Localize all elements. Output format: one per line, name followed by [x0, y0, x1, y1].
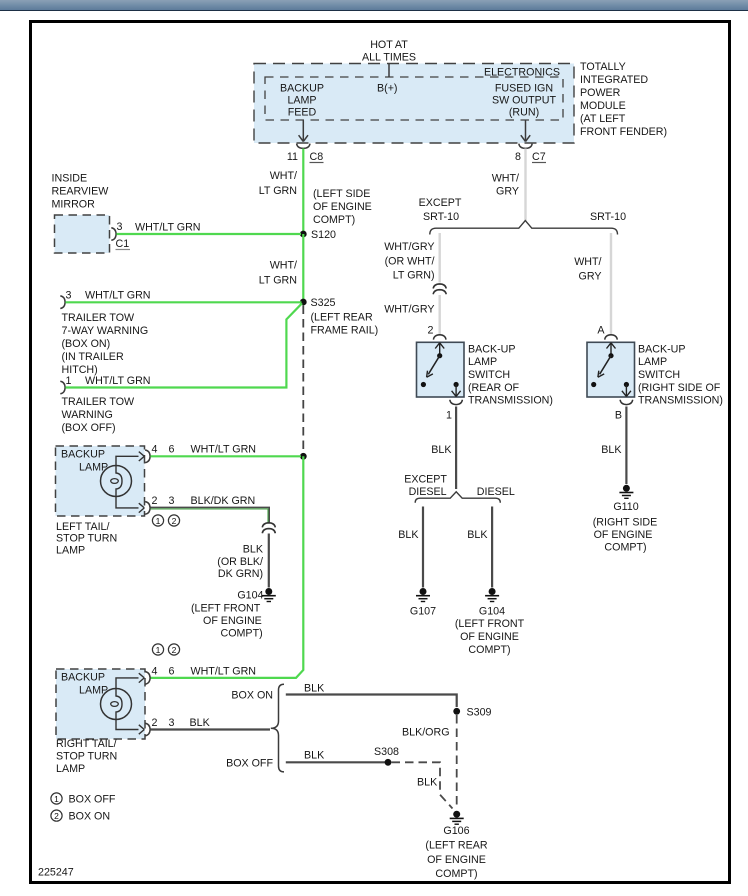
svg-text:LAMP: LAMP	[56, 763, 85, 775]
svg-text:BLK: BLK	[304, 683, 325, 695]
svg-text:RIGHT TAIL/: RIGHT TAIL/	[56, 738, 117, 750]
pin 1 label left switch	[446, 410, 452, 422]
node S325	[300, 297, 378, 337]
svg-text:3: 3	[169, 717, 175, 729]
svg-text:FRAME RAIL): FRAME RAIL)	[311, 325, 379, 337]
svg-text:LAMP: LAMP	[56, 545, 85, 557]
pin A label right switch	[597, 325, 605, 337]
connector C8 label	[310, 151, 324, 163]
label RIGHT TAIL/ STOP TURN LAMP	[56, 738, 117, 775]
svg-text:OF ENGINE: OF ENGINE	[313, 201, 372, 213]
label SRT-10	[590, 211, 626, 223]
wire BLK left switch to diesel brace	[455, 407, 457, 490]
svg-text:11: 11	[287, 151, 298, 163]
svg-text:(LEFT REAR: (LEFT REAR	[425, 840, 487, 852]
label LEFT TAIL/ STOP TURN LAMP	[56, 521, 117, 557]
svg-text:OF ENGINE: OF ENGINE	[427, 854, 486, 866]
connector C7 label	[532, 151, 546, 163]
wire BLK box-off branch to S308	[286, 750, 386, 763]
label BOX OFF	[226, 758, 273, 770]
wire WHT/GRY left branch upper	[439, 233, 441, 283]
svg-text:WHT/: WHT/	[492, 173, 519, 185]
svg-text:A: A	[597, 325, 605, 337]
svg-text:WARNING: WARNING	[62, 409, 113, 421]
svg-text:BLK: BLK	[417, 777, 438, 789]
switch S2 internals	[591, 343, 631, 397]
wire WHT/LT GRN mirror to S120	[117, 222, 302, 235]
svg-text:2: 2	[54, 811, 59, 821]
label ELECTRONICS	[484, 67, 560, 79]
node S309	[453, 707, 491, 719]
svg-text:BLK/DK GRN: BLK/DK GRN	[191, 495, 256, 507]
svg-text:G104: G104	[479, 606, 505, 618]
svg-text:MIRROR: MIRROR	[52, 199, 96, 211]
component mirror: INSIDE REARVIEW MIRROR	[52, 173, 110, 254]
svg-text:INSIDE: INSIDE	[52, 173, 88, 185]
lamp E2 right backup lamp box	[56, 669, 145, 739]
svg-text:FEED: FEED	[288, 107, 317, 119]
connector arc left lamp pin 4/6	[145, 450, 150, 463]
svg-text:G106: G106	[443, 825, 469, 837]
svg-text:(LEFT FRONT: (LEFT FRONT	[191, 603, 261, 615]
wire WHT/LT GRN from C8 to S120	[302, 149, 304, 235]
svg-text:SRT-10: SRT-10	[590, 211, 626, 223]
svg-text:BACKUP: BACKUP	[61, 672, 105, 684]
switch S2 back-up lamp switch box	[587, 342, 635, 397]
svg-text:3: 3	[169, 495, 175, 507]
svg-text:ALL TIMES: ALL TIMES	[362, 52, 416, 64]
brace SRT-10 options split	[430, 221, 618, 235]
svg-text:(IN TRAILER: (IN TRAILER	[62, 351, 124, 363]
svg-text:LAMP: LAMP	[468, 356, 497, 368]
svg-text:HOT AT: HOT AT	[370, 39, 408, 51]
svg-text:G107: G107	[410, 606, 436, 618]
svg-text:4: 4	[152, 444, 158, 456]
svg-text:WHT/: WHT/	[270, 170, 297, 182]
svg-text:TRANSMISSION): TRANSMISSION)	[468, 395, 553, 407]
svg-text:(LEFT FRONT: (LEFT FRONT	[455, 618, 525, 630]
svg-text:BLK: BLK	[601, 444, 622, 456]
ground G104 right	[479, 588, 505, 618]
svg-text:C7: C7	[532, 151, 546, 163]
label BLK right switch	[601, 444, 622, 456]
svg-text:(RUN): (RUN)	[509, 107, 539, 119]
connector arc left switch exit	[450, 400, 463, 405]
wire BLK diesel branch to G104	[467, 507, 492, 588]
svg-text:BLK/ORG: BLK/ORG	[402, 727, 450, 739]
pin 2 label left switch	[428, 325, 434, 337]
svg-text:LT GRN: LT GRN	[259, 275, 297, 287]
svg-text:BLK: BLK	[467, 529, 488, 541]
inline connector on BLK wire (double arc)	[262, 523, 275, 533]
wire TIPM internal to pin 11 with arrow	[299, 121, 308, 142]
svg-text:2: 2	[428, 325, 434, 337]
svg-text:2: 2	[172, 645, 177, 655]
connector arc right switch entry	[605, 335, 618, 340]
label BACK-UP LAMP SWITCH (REAR OF TRANSMISSION)	[468, 344, 553, 407]
svg-text:6: 6	[169, 444, 175, 456]
wire WHT/LT GRN trailer warning to S325	[66, 303, 303, 387]
brace diesel options split	[415, 492, 500, 503]
label HOT AT ALL TIMES	[362, 39, 416, 64]
svg-text:B: B	[615, 410, 622, 422]
svg-text:2: 2	[152, 717, 158, 729]
svg-text:BLK: BLK	[243, 544, 264, 556]
svg-text:SWITCH: SWITCH	[468, 369, 510, 381]
svg-text:2: 2	[152, 495, 158, 507]
connector arc trailer tow 7-way pin 3	[60, 290, 71, 309]
svg-text:1: 1	[66, 375, 72, 387]
svg-text:S120: S120	[311, 229, 336, 241]
label BLK left switch	[431, 444, 452, 456]
connector arc left lamp pin 2/3	[145, 502, 150, 515]
circled 1 and 2 footnote markers right lamp	[152, 644, 179, 655]
svg-text:(LEFT REAR: (LEFT REAR	[311, 312, 373, 324]
label (LEFT SIDE OF ENGINE COMPT)	[313, 188, 372, 226]
svg-text:1: 1	[156, 516, 161, 526]
connector C1 label	[116, 238, 131, 250]
svg-text:2: 2	[172, 516, 177, 526]
svg-text:C8: C8	[310, 151, 324, 163]
svg-text:BLK: BLK	[190, 717, 211, 729]
ground G110	[619, 485, 633, 499]
label WHT/GRY (OR WHT/ LT GRN)	[384, 241, 434, 282]
label (LEFT FRONT OF ENGINE COMPT)	[191, 603, 263, 640]
lamp E1 left backup lamp box	[56, 446, 145, 516]
wire BLK to ground G104	[268, 534, 270, 588]
label TRAILER TOW WARNING (BOX OFF)	[62, 396, 136, 434]
svg-text:BOX OFF: BOX OFF	[226, 758, 273, 770]
label BACKUP LAMP FEED	[280, 83, 324, 119]
svg-text:1: 1	[446, 410, 452, 422]
svg-text:BLK: BLK	[398, 529, 419, 541]
label G106 (LEFT REAR OF ENGINE COMPT)	[425, 825, 487, 880]
svg-text:225247: 225247	[38, 867, 74, 879]
svg-text:C1: C1	[116, 238, 130, 250]
svg-text:DIESEL: DIESEL	[409, 486, 447, 498]
svg-text:LAMP: LAMP	[287, 95, 316, 107]
svg-text:BOX ON: BOX ON	[231, 690, 273, 702]
svg-text:WHT/LT GRN: WHT/LT GRN	[85, 375, 151, 387]
svg-text:(AT LEFT: (AT LEFT	[580, 113, 626, 125]
svg-text:STOP TURN: STOP TURN	[56, 533, 117, 545]
wire WHT/GRY C7 to brace	[524, 149, 526, 222]
wire WHT/LT GRN left lamp to junction	[151, 444, 302, 457]
svg-text:POWER: POWER	[580, 87, 621, 99]
svg-text:(OR BLK/: (OR BLK/	[217, 556, 263, 568]
wire B(+) feed stub	[388, 64, 390, 77]
svg-text:(BOX ON): (BOX ON)	[62, 338, 111, 350]
lamp E1 pin 2/3 lead with arrow	[116, 497, 144, 513]
wire WHT/LT GRN trunk down to right lamp	[150, 456, 303, 678]
module U1 TIPM inner dashed box	[265, 77, 563, 120]
svg-text:BACKUP: BACKUP	[61, 449, 105, 461]
wire WHT/LT GRN S120 to S325	[302, 234, 304, 302]
svg-text:WHT/: WHT/	[574, 256, 601, 268]
pin B label right switch	[615, 410, 622, 422]
lamp E2 bulb symbol	[101, 689, 132, 720]
svg-text:REARVIEW: REARVIEW	[52, 186, 110, 198]
svg-text:OF ENGINE: OF ENGINE	[203, 615, 262, 627]
wire BLK except-diesel branch to G107	[398, 507, 423, 588]
svg-text:(BOX OFF): (BOX OFF)	[62, 422, 116, 434]
switch S1 internals	[421, 343, 461, 397]
label FUSED IGN SW OUTPUT (RUN)	[492, 83, 557, 119]
label B(+)	[377, 83, 398, 95]
connector C7 arc	[519, 144, 532, 149]
svg-text:BACK-UP: BACK-UP	[468, 344, 516, 356]
svg-text:1: 1	[156, 645, 161, 655]
svg-text:(RIGHT SIDE: (RIGHT SIDE	[593, 517, 658, 529]
svg-text:3: 3	[66, 290, 72, 302]
wire BLK/DK GRN left lamp to G104	[151, 495, 270, 523]
svg-text:WHT/: WHT/	[270, 260, 297, 272]
label WHT/LT GRN vertical feed	[259, 170, 297, 197]
svg-text:(REAR OF: (REAR OF	[468, 382, 520, 394]
node S308	[374, 746, 399, 766]
connector arc right switch exit	[620, 400, 633, 405]
switch S1 back-up lamp switch box	[417, 342, 465, 397]
wire BLK right lamp to options brace	[151, 728, 271, 730]
svg-text:TRAILER TOW: TRAILER TOW	[62, 396, 136, 408]
svg-text:OF ENGINE: OF ENGINE	[460, 631, 519, 643]
label TOTALLY INTEGRATED POWER MODULE (AT LEFT FRONT FENDER)	[580, 61, 667, 138]
svg-text:G110: G110	[613, 501, 638, 513]
label WHT/LT GRN between splices	[259, 260, 297, 287]
svg-text:TRANSMISSION): TRANSMISSION)	[638, 395, 723, 407]
svg-text:WHT/LT GRN: WHT/LT GRN	[85, 290, 151, 302]
ground G106 left rear	[450, 811, 464, 825]
svg-text:GRY: GRY	[579, 271, 602, 283]
pin labels 4 6 right lamp	[152, 666, 257, 678]
svg-text:SW OUTPUT: SW OUTPUT	[492, 95, 557, 107]
label (LEFT FRONT OF ENGINE COMPT) under G104	[455, 618, 525, 656]
label TRAILER TOW 7-WAY WARNING (BOX ON) (IN TRAILER HITCH)	[62, 312, 149, 376]
label BACK-UP LAMP SWITCH (RIGHT SIDE OF TRANSMISSION)	[638, 344, 723, 407]
lamp E1 bulb symbol	[101, 466, 132, 497]
pin labels 2 3 right lamp	[152, 717, 211, 729]
svg-text:MODULE: MODULE	[580, 100, 626, 112]
svg-text:BACKUP: BACKUP	[280, 83, 324, 95]
label EXCEPT DIESEL / DIESEL	[404, 474, 515, 499]
brace box-on/box-off options split	[271, 684, 284, 772]
legend circled 1 BOX OFF	[51, 793, 116, 806]
svg-text:ELECTRONICS: ELECTRONICS	[484, 67, 560, 79]
connector arc trailer tow pin 1	[60, 375, 71, 394]
label G110 (RIGHT SIDE OF ENGINE COMPT)	[593, 501, 658, 554]
lamp E1 pin 4/6 lead with arrow	[116, 452, 144, 466]
pin labels 2 3	[152, 495, 175, 507]
svg-text:COMPT): COMPT)	[468, 644, 510, 656]
svg-text:INTEGRATED: INTEGRATED	[580, 74, 648, 86]
connector arc left switch entry	[433, 335, 446, 340]
svg-text:S325: S325	[311, 297, 336, 309]
wire BLK/ORG dashed S309 to G106	[402, 715, 457, 807]
svg-text:COMPT): COMPT)	[435, 868, 477, 880]
wire WHT/GRY right branch	[610, 233, 612, 334]
module U1 TIPM outer dashed box	[254, 64, 574, 144]
svg-text:B(+): B(+)	[377, 83, 398, 95]
svg-text:(OR WHT/: (OR WHT/	[385, 256, 435, 268]
label BLK (OR BLK/ DK GRN)	[217, 544, 264, 581]
svg-text:3: 3	[117, 221, 123, 233]
node junction backup lamp feed	[300, 453, 307, 460]
label WHT/GRY lower	[384, 304, 434, 316]
svg-text:8: 8	[515, 151, 521, 163]
wire BLK box-on branch to S309	[286, 683, 457, 708]
svg-text:LT GRN): LT GRN)	[393, 270, 435, 282]
svg-text:6: 6	[169, 666, 175, 678]
ground G104 left front	[237, 588, 275, 602]
legend circled 2 BOX ON	[51, 810, 110, 823]
svg-text:G104: G104	[237, 590, 263, 602]
svg-text:WHT/LT GRN: WHT/LT GRN	[191, 444, 257, 456]
lamp E2 pin 4/6 lead with arrow	[116, 673, 144, 689]
svg-text:LEFT TAIL/: LEFT TAIL/	[56, 521, 109, 533]
wire BLK right switch to G110	[625, 407, 627, 485]
svg-text:(RIGHT SIDE OF: (RIGHT SIDE OF	[638, 382, 721, 394]
circled 1 and 2 footnote markers left lamp	[152, 515, 179, 526]
svg-text:TOTALLY: TOTALLY	[580, 61, 626, 73]
svg-text:FUSED IGN: FUSED IGN	[495, 83, 553, 95]
svg-text:LT GRN: LT GRN	[259, 185, 297, 197]
svg-text:S308: S308	[374, 746, 399, 758]
svg-text:TRAILER TOW: TRAILER TOW	[62, 312, 136, 324]
svg-text:BLK: BLK	[431, 444, 452, 456]
svg-text:4: 4	[152, 666, 158, 678]
inline connector on left branch (double arc)	[433, 284, 446, 294]
svg-text:WHT/GRY: WHT/GRY	[384, 241, 434, 253]
wire BLK dashed S308 to G106	[392, 762, 453, 808]
wire dashed trunk S325 to junction	[302, 306, 304, 457]
label WHT/ GRY right branch	[574, 256, 601, 283]
label diagram number 225247	[38, 867, 74, 879]
label BOX ON	[231, 690, 273, 702]
connector arc right lamp pin 4/6	[145, 672, 150, 685]
svg-text:BLK: BLK	[304, 750, 325, 762]
connector C1 arc	[111, 228, 116, 241]
ground G107	[410, 588, 436, 618]
svg-text:S309: S309	[467, 707, 492, 719]
label EXCEPT SRT-10	[419, 197, 462, 223]
pin labels 4 6	[152, 444, 175, 456]
lamp E2 pin 2/3 lead with arrow	[116, 720, 144, 735]
svg-text:7-WAY WARNING: 7-WAY WARNING	[62, 325, 149, 337]
svg-text:1: 1	[54, 794, 59, 804]
node S120	[300, 229, 336, 241]
svg-text:LAMP: LAMP	[638, 356, 667, 368]
wire WHT/GRY left branch lower	[439, 295, 441, 334]
svg-text:WHT/GRY: WHT/GRY	[384, 304, 434, 316]
label WHT/ GRY at C7	[492, 173, 519, 198]
svg-text:EXCEPT: EXCEPT	[404, 474, 447, 486]
wire WHT/LT GRN trailer 7-way to S325	[66, 290, 302, 303]
svg-text:DK GRN): DK GRN)	[218, 568, 263, 580]
svg-text:SRT-10: SRT-10	[423, 211, 459, 223]
svg-text:COMPT): COMPT)	[313, 214, 355, 226]
svg-text:SWITCH: SWITCH	[638, 369, 680, 381]
svg-text:FRONT FENDER): FRONT FENDER)	[580, 126, 667, 138]
svg-text:BACK-UP: BACK-UP	[638, 344, 686, 356]
svg-text:WHT/LT GRN: WHT/LT GRN	[135, 222, 201, 234]
svg-text:(LEFT SIDE: (LEFT SIDE	[313, 188, 370, 200]
pin 3 label at C1	[117, 221, 123, 233]
svg-text:BOX OFF: BOX OFF	[69, 794, 116, 806]
wire TIPM internal to pin 8 with arrow	[521, 121, 530, 142]
pin 8 label	[515, 151, 521, 163]
svg-text:OF ENGINE: OF ENGINE	[594, 529, 653, 541]
svg-text:BOX ON: BOX ON	[69, 811, 111, 823]
svg-text:COMPT): COMPT)	[221, 628, 263, 640]
svg-text:COMPT): COMPT)	[604, 542, 646, 554]
svg-text:WHT/LT GRN: WHT/LT GRN	[191, 666, 257, 678]
connector C8 arc	[297, 144, 310, 149]
pin 11 label	[287, 151, 298, 163]
connector arc right lamp pin 2/3	[145, 723, 150, 736]
svg-text:GRY: GRY	[496, 186, 519, 198]
svg-text:EXCEPT: EXCEPT	[419, 197, 462, 209]
svg-text:STOP TURN: STOP TURN	[56, 751, 117, 763]
svg-text:DIESEL: DIESEL	[477, 486, 515, 498]
